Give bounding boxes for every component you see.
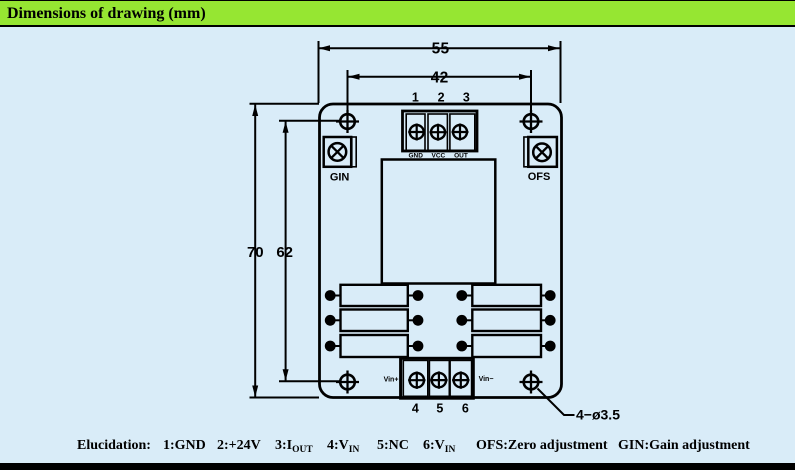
dim 62 top extension bbox=[279, 120, 340, 122]
dim 42 extension line left bbox=[347, 70, 349, 112]
svg-text:4: 4 bbox=[412, 402, 419, 416]
dim 70 arrow bottom bbox=[252, 386, 258, 398]
top screw 3 bbox=[452, 124, 469, 141]
svg-text:3: 3 bbox=[463, 91, 470, 105]
top screw 2 bbox=[430, 124, 447, 141]
svg-text:42: 42 bbox=[431, 69, 449, 86]
svg-text:Vin+: Vin+ bbox=[384, 377, 399, 384]
dim 70 arrow top bbox=[252, 105, 258, 117]
resistor box right row3 bbox=[472, 335, 541, 357]
dim 42 arrow left bbox=[348, 74, 360, 80]
svg-text:OFS: OFS bbox=[528, 171, 551, 183]
bottom screw 4 bbox=[408, 372, 425, 389]
dim 70 top extension (board top edge extended) bbox=[250, 103, 320, 105]
OFS trimmer circle-X bbox=[533, 144, 551, 162]
dim 55 extension line left bbox=[318, 41, 320, 103]
svg-text:Vin−: Vin− bbox=[479, 376, 494, 383]
bottom terminal cell 2 bbox=[429, 360, 449, 396]
dim 55 line bbox=[319, 47, 561, 49]
svg-text:5: 5 bbox=[436, 402, 443, 416]
dim 42 line bbox=[348, 76, 532, 78]
pad dots and stubs row2 bbox=[325, 315, 556, 326]
OFS trimmer box bbox=[528, 137, 557, 167]
bottom screw 6 bbox=[452, 371, 469, 388]
svg-text:VCC: VCC bbox=[432, 153, 446, 160]
resistor box left row3 bbox=[341, 335, 408, 357]
mounting hole bottom-right bbox=[520, 371, 543, 394]
top terminal cell 1 bbox=[406, 114, 425, 150]
dim 70 bottom extension (board bottom edge extended) bbox=[250, 397, 320, 399]
bottom screw 5 bbox=[430, 371, 447, 388]
hole callout leader 4-dia3.5 bbox=[538, 389, 575, 416]
dim 70 line bbox=[254, 104, 256, 398]
resistor box right row2 bbox=[472, 310, 541, 332]
mounting hole top-left bbox=[336, 110, 359, 133]
bottom terminal cell 3 bbox=[450, 360, 472, 396]
center component rectangle bbox=[382, 160, 496, 284]
top terminal cell 2 bbox=[428, 114, 447, 150]
GIN trimmer side tab bbox=[352, 137, 356, 167]
pad dots and stubs row1 bbox=[325, 290, 556, 301]
dim 42 extension line right bbox=[530, 70, 532, 112]
dim 55 arrow right bbox=[548, 45, 560, 51]
board outline bbox=[320, 104, 562, 398]
svg-text:OUT: OUT bbox=[454, 153, 468, 160]
svg-text:4−ø3.5: 4−ø3.5 bbox=[576, 407, 620, 423]
GIN trimmer circle-X bbox=[329, 143, 347, 161]
svg-text:2: 2 bbox=[438, 91, 445, 105]
bottom black bar bbox=[0, 463, 795, 470]
bottom terminal cell 1 bbox=[403, 360, 428, 396]
header bar bbox=[0, 0, 795, 27]
top terminal cell 3 bbox=[450, 114, 475, 150]
dim 62 bottom extension bbox=[279, 380, 340, 382]
dim 42 arrow right bbox=[519, 74, 531, 80]
mounting hole bottom-left bbox=[336, 371, 359, 394]
top screw 1 bbox=[408, 124, 425, 141]
GIN trimmer box bbox=[324, 137, 352, 167]
svg-text:GIN: GIN bbox=[330, 172, 350, 184]
bottom terminal block outer bbox=[401, 358, 474, 398]
svg-text:62: 62 bbox=[276, 244, 293, 261]
resistor box left row1 bbox=[341, 285, 408, 306]
svg-text:GND: GND bbox=[408, 153, 423, 160]
pad dots and stubs row3 bbox=[325, 341, 556, 352]
elucidation legend row bbox=[0, 438, 795, 458]
svg-text:6: 6 bbox=[462, 402, 469, 416]
dim 62 arrow bottom bbox=[283, 369, 289, 381]
resistor box right row1 bbox=[472, 285, 541, 306]
svg-text:1: 1 bbox=[412, 91, 419, 105]
dim 62 arrow top bbox=[283, 121, 289, 133]
dim 62 line bbox=[285, 121, 287, 381]
dim 55 arrow left bbox=[319, 45, 331, 51]
resistor box left row2 bbox=[341, 310, 408, 332]
dim 55 extension line right bbox=[560, 41, 562, 103]
svg-text:70: 70 bbox=[247, 244, 264, 261]
top terminal block outer bbox=[403, 111, 478, 151]
mounting hole top-right bbox=[520, 110, 543, 133]
svg-text:55: 55 bbox=[432, 40, 450, 57]
OFS trimmer side tab bbox=[524, 137, 528, 167]
